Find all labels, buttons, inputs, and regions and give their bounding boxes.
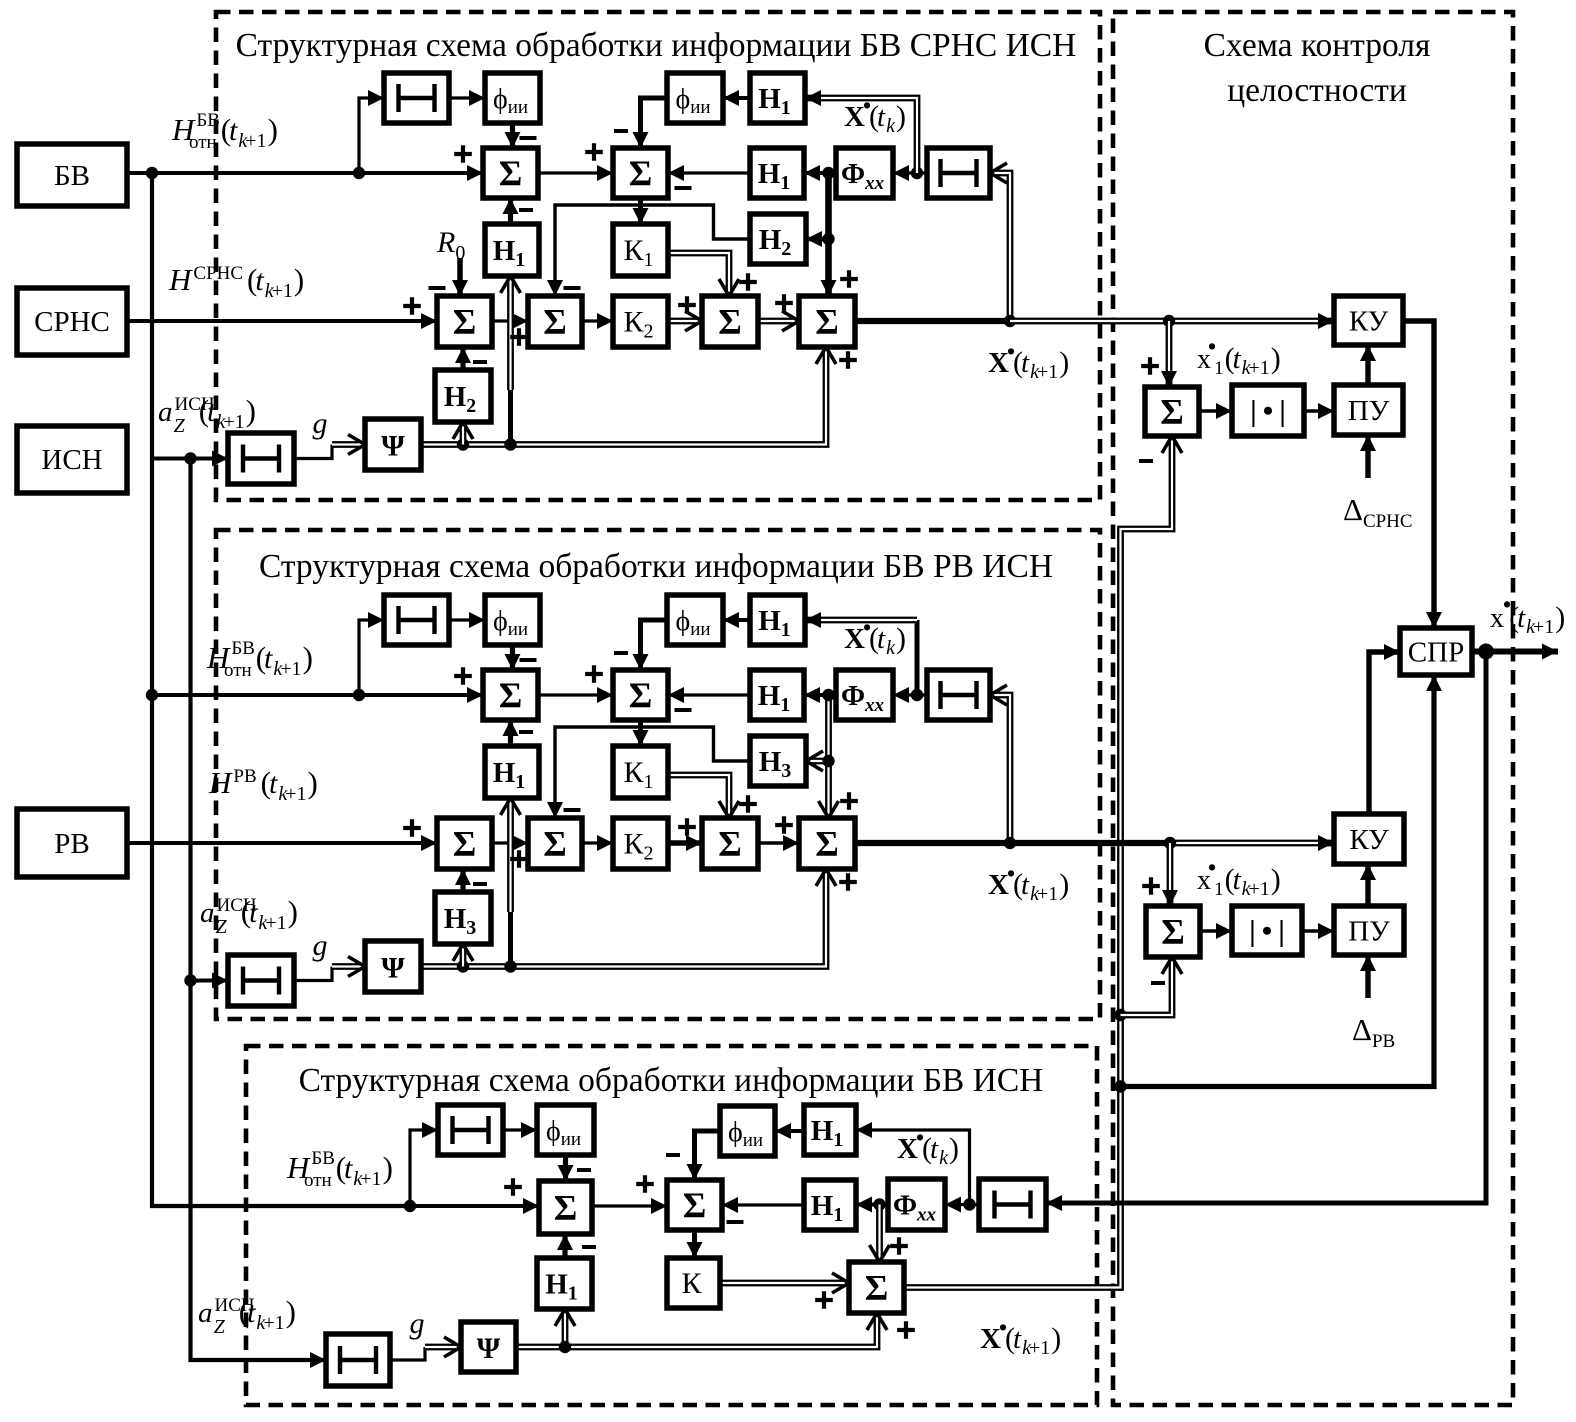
block КУ2 [1334, 814, 1404, 864]
signs scheme C [504, 1178, 522, 1196]
block φии Ba [485, 595, 540, 645]
summer ΣA4 [528, 296, 582, 347]
svg-text:Структурная схема обработки ин: Структурная схема обработки информации Б… [259, 548, 1053, 585]
block H1 Btop [750, 595, 805, 645]
summer ΣB2 [613, 670, 668, 720]
block H1 Ctop [804, 1105, 856, 1155]
state riser Фxx B down to ΣB6 [825, 695, 832, 818]
wire H1 Alow → ΣA1 bottom [508, 198, 513, 224]
signs integrity control [1141, 357, 1159, 375]
block H1 Bmid [750, 670, 804, 720]
summer ΣC3 [849, 1262, 904, 1313]
delay element Ba [384, 595, 449, 645]
junction X(tk+1) B [1004, 837, 1016, 849]
wire H1 Blow → ΣB1 bottom [508, 720, 513, 746]
wire H1 Bmid → ΣB2 right [668, 693, 750, 696]
wire corridor → СПР bottom [1121, 675, 1435, 1087]
block H1 Atop [750, 73, 805, 123]
svg-text:g: g [313, 407, 328, 440]
junction delay Ar output [911, 167, 923, 179]
output wire ΣA6 → X(tk+1) [855, 318, 1010, 324]
junction X1 → Σ7 [1163, 315, 1175, 327]
signs scheme B [454, 667, 472, 685]
svg-text:Ψ: Ψ [477, 1332, 501, 1365]
block φии Aa [485, 73, 540, 123]
wire φии Ca → ΣC1 top [563, 1155, 568, 1181]
svg-text:ИСН: ИСН [41, 444, 102, 476]
riser X1 → Σ7 top [1166, 321, 1173, 387]
wire riser to delay Ba [359, 620, 384, 695]
wire БВ → ΣC1 [152, 1204, 539, 1208]
delay element Ar [927, 148, 990, 198]
wire ΣB5 → ΣB6 [758, 841, 799, 844]
wire H2 Aright → ΣA4 top [555, 205, 750, 296]
output СПР → x(tk+1) [1472, 649, 1558, 655]
wire K2 A → ΣA5 [668, 318, 702, 325]
svg-text:РВ: РВ [54, 828, 89, 860]
sign − R0 [429, 286, 446, 290]
wire delay Aa → φии Aa [449, 96, 485, 99]
wire ΨB output line [421, 869, 826, 967]
block H1 Cmid [804, 1180, 856, 1230]
svg-text:Ψ: Ψ [381, 430, 405, 463]
svg-text:Структурная схема обработки ин: Структурная схема обработки информации Б… [236, 27, 1077, 64]
feedback riser into delay Ar [990, 173, 1010, 321]
wire K1 B → ΣB5 top [668, 775, 729, 818]
junction state riser / H3 B feed [822, 755, 834, 767]
block Фxx B [836, 670, 893, 720]
wire СРНС/РВ → ΣA3 [127, 319, 437, 323]
junction X(tk+1) A [1004, 315, 1016, 327]
junction ИСН trunk → scheme B [184, 974, 196, 986]
block φии Bb [667, 595, 723, 645]
wire БВ → ΣA1 [127, 171, 483, 175]
svg-text:| • |: | • | [1250, 395, 1286, 428]
wire Фxx B → H1 Bmid [804, 693, 836, 697]
riser to delay Ca [410, 1130, 438, 1206]
wire delay Cc step → ΨC [390, 1347, 425, 1360]
summer ΣB3 [437, 818, 492, 869]
wire φии Cb → ΣC2 top [695, 1131, 721, 1180]
wire H1 Btop → φии Bb [723, 618, 750, 622]
wire ΣA2 → K1 A [638, 198, 643, 224]
svg-text:Σ: Σ [815, 824, 839, 864]
wire riser to delay Aa [359, 98, 384, 173]
wire φии Bb → ΣB2 top [641, 620, 668, 670]
wire delay Br → Фxx B [893, 693, 927, 696]
wire H1 Amid → ΣA2 right [668, 171, 750, 174]
riser X(tk) → H1 Ctop [856, 1130, 970, 1205]
block ПУ2 [1334, 906, 1404, 955]
svg-text:КУ: КУ [1349, 306, 1389, 338]
junction ΨC line riser [559, 1341, 571, 1353]
source block СРНС [17, 288, 127, 355]
wire ΣC1 → ΣC2 [592, 1204, 667, 1207]
block H3 Blow [435, 892, 491, 944]
junction ΨA line → H2 Alow [457, 438, 469, 450]
wire H1 Ctop → φии Cb [775, 1129, 804, 1133]
wire БВ → ΣB1 [152, 693, 483, 697]
svg-text:Σ: Σ [683, 1185, 707, 1225]
junction БВ trunk → scheme A [146, 167, 158, 179]
junction ΨA line → H1 Alow riser [504, 438, 516, 450]
summer Σ7 [1145, 387, 1199, 436]
block K2 A [613, 296, 668, 347]
svg-text:Σ: Σ [629, 675, 653, 715]
summer ΣB5 [702, 818, 758, 869]
summer ΣB6 [799, 818, 855, 869]
dashed frame: scheme 3 (БВ ИСН) [246, 1046, 1097, 1405]
junction corridor → Σ8 branch [1114, 1009, 1126, 1021]
dashed frame: scheme 1 (БВ СРНС ИСН) [216, 12, 1100, 500]
output wire ΣB6 → X(tk+1) [855, 841, 1010, 845]
summer Σ8 [1146, 906, 1200, 957]
stub state riser → H3 Bright [806, 758, 829, 765]
wire ΣA5 → ΣA6 [758, 318, 799, 325]
svg-text:ПУ: ПУ [1348, 916, 1390, 948]
wire ΨA output line [421, 347, 826, 445]
block φии Ab [667, 73, 723, 123]
junction БВ wire scheme C [404, 1200, 416, 1212]
delay element Cc [326, 1334, 390, 1386]
summer ΣA1 [483, 148, 538, 198]
delay element Aa [384, 73, 449, 123]
source block РВ [17, 809, 127, 877]
wire ΣA3 → ΣA4 [492, 319, 528, 322]
wire delay Ar → Фxx A [893, 171, 927, 174]
block ΨB [365, 941, 421, 992]
delay element Cb [979, 1179, 1046, 1230]
wire ΨC output → ΣC3 bottom [516, 1313, 877, 1347]
wire ΣA4 → K2 A [582, 319, 613, 322]
wire delay BL step → ΨB [294, 967, 332, 981]
junction delay Br output [911, 689, 923, 701]
arrowheads scheme A [467, 165, 483, 181]
wire H3 Bright → ΣB4 top [555, 727, 750, 818]
svg-text:целостности: целостности [1227, 72, 1407, 109]
wire delay Ca → φии Ca [503, 1128, 537, 1131]
wire ΣB3 → ΣB4 [492, 841, 528, 844]
input R0 arrow [457, 258, 463, 296]
wire БВ trunk vertical x=152 [152, 173, 410, 1206]
junction БВ wire / riser to delay A [353, 167, 365, 179]
svg-text:Σ: Σ [543, 302, 567, 342]
summer ΣA3 [437, 296, 492, 347]
block |.|1 [1232, 385, 1304, 436]
wire H1 Cmid → ΣC2 right [722, 1203, 804, 1206]
svg-text:Ψ: Ψ [381, 952, 405, 985]
block K1 A [613, 224, 668, 276]
junction state riser A [822, 167, 834, 179]
junction state riser / H2 A feed [822, 233, 834, 245]
feedback riser into delay Br [990, 695, 1010, 843]
block ПУ1 [1334, 385, 1403, 435]
wire ПУ1 → КУ1 [1365, 345, 1370, 385]
wire КУ1 → СПР top [1403, 321, 1434, 628]
stub state riser → H2 Aright [806, 237, 829, 242]
delay element Ca [438, 1105, 503, 1155]
block |.|2 [1232, 906, 1302, 955]
wire H2 Alow → ΣA3 bottom [460, 396, 467, 422]
dashed frame: integrity-control scheme [1113, 12, 1513, 1405]
svg-text:Σ: Σ [629, 153, 653, 193]
dashed frame: scheme 2 (БВ РВ ИСН) [216, 530, 1100, 1019]
arrowheads integrity control [1318, 313, 1334, 329]
source block ИСН [17, 426, 127, 493]
wire X1 → КУ1 [1010, 318, 1334, 325]
block H1 Amid [750, 148, 804, 198]
block ΨA [365, 419, 421, 470]
riser Ψ line → H1 Clow [562, 1309, 569, 1347]
svg-text:Σ: Σ [718, 824, 742, 864]
wire H1 Clow → ΣC1 bottom [562, 1234, 567, 1258]
wire φии Ab → ΣA2 top [641, 98, 668, 148]
svg-text:Структурная схема обработки ин: Структурная схема обработки информации Б… [299, 1062, 1044, 1099]
wire ΣB2 → K1 B [638, 720, 643, 746]
svg-text:Σ: Σ [865, 1268, 889, 1308]
junction ΨB line → H1 Blow riser [504, 960, 516, 972]
svg-text:Σ: Σ [815, 302, 839, 342]
wire Σ8 → |.|2 [1200, 929, 1232, 933]
block Фxx C [888, 1179, 945, 1230]
summer ΣA2 [613, 148, 668, 198]
delay element AL [228, 433, 294, 484]
svg-text:К: К [681, 1267, 702, 1300]
svg-text:Σ: Σ [453, 302, 477, 342]
source block БВ [17, 144, 127, 206]
junction state riser B [822, 689, 834, 701]
wire delay Ba → φии Ba [449, 618, 485, 621]
svg-text:Схема контроля: Схема контроля [1204, 27, 1431, 64]
wire |.|1 → ПУ1 [1304, 409, 1334, 413]
svg-text:Σ: Σ [543, 824, 567, 864]
block K1 B [613, 746, 668, 798]
block H2 Alow [435, 370, 491, 422]
block H1 Blow [485, 746, 539, 798]
wire H2 Blow → ΣB3 bottom [460, 918, 467, 944]
wire corridor → Σ8 bottom [1121, 957, 1173, 1015]
wire |.|2 → ПУ2 [1302, 929, 1334, 933]
wire СРНС/РВ → ΣB3 [127, 841, 437, 845]
block КУ1 [1334, 296, 1403, 345]
wire K C → ΣC3 [720, 1280, 849, 1287]
wire ΣB1 → ΣB2 [538, 693, 613, 696]
wire K1 A → ΣA5 top [668, 253, 729, 296]
wire delay AL step → ΨA [294, 445, 332, 459]
wire H1 Atop → φии Ab [723, 96, 750, 100]
arrowheads scheme B [467, 687, 483, 703]
svg-text:| • |: | • | [1249, 915, 1285, 948]
block H2 Aright [750, 214, 806, 264]
svg-text:КУ: КУ [1349, 824, 1389, 856]
signs scheme A [454, 145, 472, 163]
input Δ_РВ arrow [1365, 955, 1370, 998]
state riser Фxx A down to ΣA6 [825, 173, 832, 296]
block H1 Clow [537, 1258, 592, 1309]
junction БВ trunk → scheme B [146, 689, 158, 701]
wire X2 → КУ2 [855, 840, 1170, 846]
svg-text:Σ: Σ [453, 824, 477, 864]
block H3 Bright [750, 736, 806, 786]
wire riser X(tk) → H1 Btop [915, 620, 920, 695]
wire Фxx C → H1 Cmid [856, 1203, 888, 1207]
delay element BL [228, 955, 294, 1006]
svg-text:Σ: Σ [718, 302, 742, 342]
summer ΣA6 [799, 296, 855, 347]
wire riser ΨB line → H1 Blow [507, 798, 514, 912]
svg-text:Σ: Σ [554, 1188, 578, 1228]
wire ИСН trunk vertical x=190 [191, 459, 327, 1361]
block φии Ca [537, 1105, 594, 1155]
input Δ_СРНС arrow [1365, 435, 1370, 478]
wire delay Cb → Фxx C [945, 1203, 979, 1206]
wire ПУ2 → КУ2 [1365, 864, 1370, 906]
block φии Cb [720, 1106, 775, 1156]
summer ΣC1 [539, 1181, 592, 1234]
svg-text:Σ: Σ [1161, 912, 1185, 952]
wire riser X(tk) → H1 Atop [805, 98, 917, 173]
delay element Br [927, 670, 990, 720]
svg-text:СРНС: СРНС [34, 306, 110, 338]
block ΨC [461, 1322, 516, 1372]
junction ИСН trunk → scheme A [184, 452, 196, 464]
block H1 Alow [485, 224, 539, 276]
wire Σ7 → |.|1 [1199, 409, 1232, 413]
feedback СПР → delay Cb [1046, 652, 1486, 1204]
summer ΣA5 [702, 296, 758, 347]
block СПР [1400, 628, 1472, 675]
block K C [667, 1258, 720, 1308]
state riser → ΣC3 top [876, 1205, 883, 1263]
svg-text:СПР: СПР [1408, 637, 1464, 669]
wire ИСН → delay AL [152, 457, 228, 461]
summer ΣB1 [483, 670, 538, 720]
junction X2 → Σ8 [1164, 837, 1176, 849]
svg-text:Σ: Σ [1160, 392, 1184, 432]
junction СПР output [1478, 644, 1494, 660]
svg-text:Σ: Σ [499, 153, 523, 193]
svg-text:g: g [313, 929, 328, 962]
block K2 B [613, 818, 668, 869]
svg-text:ПУ: ПУ [1348, 395, 1390, 427]
arrowheads scheme C [523, 1198, 539, 1214]
wire ИСН → delay BL [191, 979, 229, 983]
svg-text:Σ: Σ [499, 675, 523, 715]
wire ΣC2 → K C [692, 1230, 697, 1258]
junction Фxx C output [873, 1198, 885, 1210]
junction ΨB line → H3 Blow [457, 960, 469, 972]
wire φии Aa → ΣA1 top [510, 123, 515, 148]
summer ΣC2 [667, 1180, 722, 1230]
output ΣC3 → corridor [904, 436, 1172, 1288]
wire ΣB4 → K2 B [582, 841, 613, 844]
wire φии Ba → ΣB1 top [510, 645, 515, 670]
junction БВ wire / riser to delay B [353, 689, 365, 701]
wire ΣA1 → ΣA2 [538, 171, 613, 174]
svg-text:БВ: БВ [54, 160, 90, 192]
wire riser ΨA line → H1 Alow [507, 276, 514, 390]
svg-text:g: g [410, 1307, 425, 1340]
wire Фxx A → H1 Amid [804, 171, 836, 175]
summer ΣB4 [528, 818, 582, 869]
wire КУ2 → СПР left [1369, 652, 1400, 814]
riser X2 → Σ8 top [1167, 843, 1174, 906]
block Фxx A [836, 148, 893, 198]
junction corridor → СПР branch [1114, 1080, 1126, 1092]
wire K2 B → ΣB5 [668, 840, 702, 846]
junction delay Cb output [963, 1198, 975, 1210]
